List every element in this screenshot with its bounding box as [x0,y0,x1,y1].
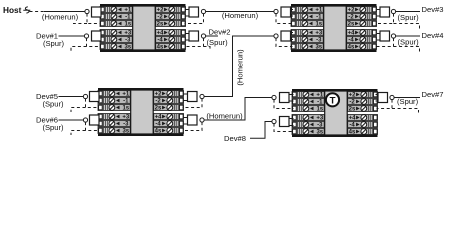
connector A upper-right [189,7,206,17]
svg-text:(Spur): (Spur) [42,99,64,108]
wire: Dev#1 spur [59,35,85,37]
wire: Dev#2 spur stub [206,35,218,37]
svg-text:(Spur): (Spur) [398,13,420,22]
shield dash B lower-left [276,38,293,46]
connector B upper-right [380,7,396,17]
wire: Dev#5 spur [59,96,84,98]
connector C upper-left [83,92,99,102]
stubs B upper-right [377,10,380,17]
svg-text:(Homerun): (Homerun) [42,12,79,21]
connector B lower-left [274,31,291,41]
svg-text:(Spur): (Spur) [397,97,419,106]
wire: Dev#8 lead [250,122,272,139]
svg-text:(Spur): (Spur) [42,123,64,132]
shield dash C upper-right [183,99,203,108]
shield dash A lower-left [71,38,101,51]
svg-text:Dev#4: Dev#4 [422,31,444,40]
svg-text:Dev#3: Dev#3 [422,5,444,14]
connector D upper-right [378,93,394,103]
stubs D upper-right [376,95,379,102]
wire: Dev#6 spur [59,119,84,121]
shield dash D lower-left [274,124,294,132]
connector D lower-left [272,117,289,127]
wire: host homerun dashed lead [30,11,45,13]
wire: homerun C to D [204,98,272,121]
wire: homerun trunk A to B [206,11,274,13]
connector A lower-right [189,31,206,41]
shield dash B lower-right [376,38,420,51]
svg-text:(Homerun): (Homerun) [206,111,243,120]
wiring block A (top-left megablock) [100,4,186,52]
shield dash D upper-right [377,100,419,113]
host connector squiggle symbol [23,7,30,13]
connector C lower-right [188,115,205,125]
wiring block D (bottom-right megablock, with terminator) [292,89,378,137]
shield dash A upper-right [185,14,204,24]
wire: Dev#3 spur [396,11,420,13]
shield dash B upper-right [376,14,420,29]
wire: vertical homerun B to C [204,36,274,97]
stub A lower-right [186,34,190,41]
svg-text:Dev#2: Dev#2 [209,28,231,37]
svg-text:(Homerun): (Homerun) [236,49,245,86]
wire: Dev#7 spur [394,97,420,99]
svg-text:(Spur): (Spur) [43,39,65,48]
connector B upper-left [274,7,291,17]
connector B lower-right [380,31,396,41]
stubs C lower-right [184,118,188,125]
shield dash A upper-left [73,14,101,24]
wiring block B (top-right megablock) [291,4,377,52]
connector A lower-left [84,31,101,41]
stubs B lower-left [291,33,294,40]
shield dash D upper-left [274,100,294,109]
stubs B lower-right [377,34,380,41]
svg-text:(Spur): (Spur) [207,38,229,47]
svg-text:Dev#8: Dev#8 [224,134,246,143]
svg-text:Host: Host [3,5,22,15]
svg-text:(Spur): (Spur) [398,38,420,47]
shield dash C lower-right [183,122,203,130]
connector A upper-left [85,7,101,17]
connector C upper-right [188,92,205,102]
shield dash C lower-left [71,122,99,135]
stub A upper-right [186,10,190,17]
wiring block C (bottom-left megablock) [98,88,184,136]
terminator T in block D [326,93,339,106]
shield dash C upper-left [71,99,99,112]
stubs B upper-left [291,10,294,17]
svg-text:(Homerun): (Homerun) [222,11,259,20]
stubs C upper-right [184,94,188,101]
shield dash A lower-right [185,38,211,51]
svg-text:T: T [330,95,336,106]
svg-text:Dev#7: Dev#7 [422,90,444,99]
wire: Dev#4 spur [396,35,420,37]
shield dash B upper-left [276,14,293,24]
wire: host homerun trunk [44,11,85,13]
connector D upper-left [272,93,289,103]
stubs D lower-left [289,119,294,126]
connector C lower-left [83,115,99,125]
stubs D upper-left [289,95,294,102]
